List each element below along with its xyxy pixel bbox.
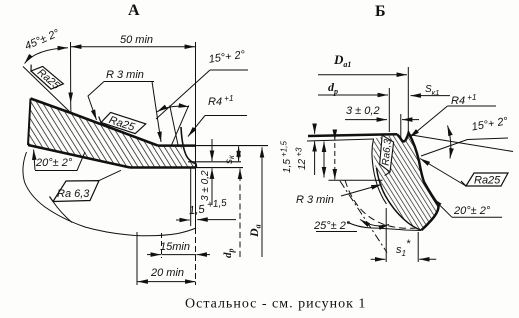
svg-text:Ra6,3: Ra6,3 bbox=[381, 138, 394, 166]
R3min left leader bbox=[88, 82, 104, 121]
svg-text:А: А bbox=[128, 2, 140, 19]
svg-text:Ra25: Ra25 bbox=[35, 66, 62, 91]
svg-text:dp: dp bbox=[328, 80, 338, 96]
tooth flank curve (layer end) bbox=[181, 127, 197, 167]
45 deg label bbox=[23, 27, 62, 52]
hardened layer line (B) bbox=[307, 139, 374, 141]
svg-text:Б: Б bbox=[375, 3, 386, 20]
svg-text:R 3 min: R 3 min bbox=[296, 194, 334, 206]
angle arm (B) bbox=[409, 135, 514, 152]
d_p extension line bbox=[388, 88, 390, 132]
wedge bottom 20deg edge bbox=[28, 145, 130, 168]
d_p line (A) bbox=[239, 169, 241, 257]
50min right extension line bbox=[195, 42, 197, 228]
svg-text:3 ± 0,2: 3 ± 0,2 bbox=[200, 170, 211, 201]
svg-text:Остальнос - см. рисунок 1: Остальнос - см. рисунок 1 bbox=[185, 297, 366, 312]
svg-text:3 ± 0,2: 3 ± 0,2 bbox=[346, 105, 380, 117]
Ra25 flag (B) bbox=[461, 173, 508, 187]
hatched tooth (view B) bbox=[373, 133, 438, 230]
svg-text:dp: dp bbox=[222, 249, 236, 259]
svg-text:Sк1: Sк1 bbox=[425, 84, 439, 97]
svg-text:R 3 min: R 3 min bbox=[106, 69, 144, 81]
s1* dim (B) bbox=[385, 208, 387, 262]
tooth outline (B) bbox=[397, 133, 438, 230]
25deg dash-dot axis bbox=[340, 181, 387, 253]
45 deg chamfer extension line bbox=[23, 67, 71, 114]
svg-text:20 min: 20 min bbox=[150, 267, 184, 279]
1,5+1,5 dim (B) bbox=[280, 141, 294, 173]
svg-text:15°+ 2°: 15°+ 2° bbox=[471, 115, 510, 133]
vertical dashed ext x=161.5 bbox=[161, 233, 163, 258]
root concave curve (B) bbox=[377, 168, 422, 230]
3+-0,2 dim (A) bbox=[200, 170, 211, 201]
svg-text:25°± 2°: 25°± 2° bbox=[313, 220, 351, 232]
pitch dashed arc (B) bbox=[345, 180, 417, 228]
s_k dim (A) bbox=[224, 154, 236, 164]
bottom surface line bbox=[130, 166, 196, 169]
dashed vertical with arrow (B) bbox=[334, 131, 336, 140]
svg-text:sк: sк bbox=[224, 154, 236, 164]
svg-text:Dа1: Dа1 bbox=[333, 52, 351, 69]
shelf top surface line bbox=[158, 144, 196, 147]
wedge outline: chamfer + slope edge bbox=[31, 99, 159, 146]
1,5+1,5 dim bbox=[188, 198, 228, 217]
svg-text:R4 +1: R4 +1 bbox=[451, 93, 476, 107]
svg-text:15min: 15min bbox=[160, 241, 190, 253]
freehand break curve bbox=[23, 152, 196, 236]
svg-text:12 +3: 12 +3 bbox=[295, 147, 309, 170]
svg-text:Ra25: Ra25 bbox=[474, 175, 501, 187]
Ra25 flag on chamfer bbox=[27, 60, 63, 93]
svg-text:R4 +1: R4 +1 bbox=[208, 94, 233, 108]
bottom freehand break (B) bbox=[347, 222, 421, 231]
hatched hardened layer (view A) bbox=[28, 99, 196, 168]
svg-text:20°± 2°: 20°± 2° bbox=[35, 157, 73, 169]
svg-text:s1*: s1* bbox=[396, 238, 411, 258]
50min left extension line + down arrow bbox=[70, 42, 72, 103]
svg-text:15°+ 2°: 15°+ 2° bbox=[208, 49, 247, 66]
wedge left edge bbox=[28, 99, 31, 146]
Ra6,3 flag (A) bbox=[50, 181, 100, 202]
vertical ext x=137 bbox=[136, 232, 138, 285]
svg-text:20°± 2°: 20°± 2° bbox=[453, 205, 491, 217]
15 deg arc (B) bbox=[448, 126, 451, 159]
svg-text:Da: Da bbox=[247, 224, 263, 238]
D_a1 extension line bbox=[407, 67, 409, 133]
svg-text:1,5 +1,5: 1,5 +1,5 bbox=[280, 141, 294, 173]
wavy left boundary (B) bbox=[372, 139, 387, 204]
tooth flank arm B bbox=[172, 105, 189, 145]
rim surface line (B) bbox=[308, 134, 397, 136]
tooth flank arm A bbox=[170, 105, 179, 146]
15 deg label (A) bbox=[208, 49, 247, 66]
Ra6,3 flag (B) rotated bbox=[379, 135, 394, 176]
15 deg label (B) bbox=[471, 115, 510, 133]
15deg arc (A) bbox=[157, 106, 189, 112]
svg-text:50 min: 50 min bbox=[120, 34, 153, 46]
Ra25 flag on slope bbox=[97, 109, 146, 136]
25 deg arc bbox=[360, 220, 389, 226]
depth reference line (B) bbox=[329, 179, 383, 181]
50min dimension bbox=[71, 46, 195, 48]
shelf mid line bbox=[188, 161, 241, 163]
D_a line (A) bbox=[261, 147, 263, 257]
svg-text:Ra 6,3: Ra 6,3 bbox=[57, 188, 90, 200]
12+3 dim (B) bbox=[295, 147, 309, 170]
45 deg arc bbox=[25, 48, 69, 64]
R3min right leader bbox=[152, 82, 161, 143]
